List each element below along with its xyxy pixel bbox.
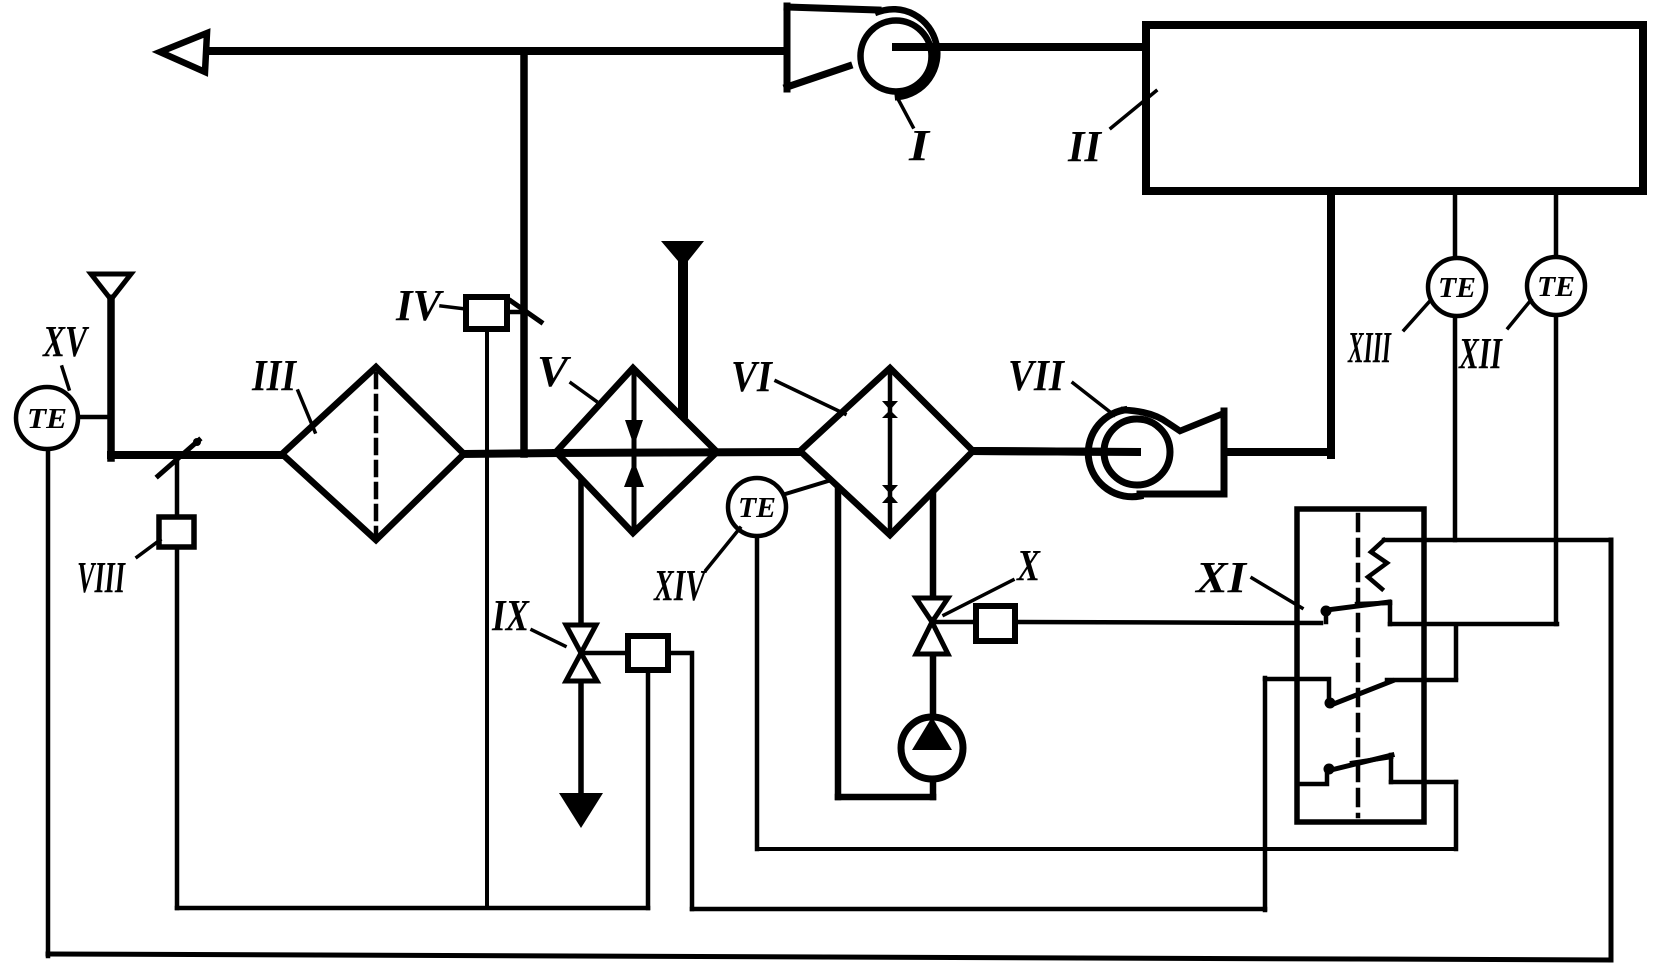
relay contact 3 pivot dot [1324, 764, 1335, 775]
wire: TE XII down to rail P2 [1554, 314, 1559, 624]
leader line label I [898, 99, 913, 127]
leader line label XI [1252, 578, 1302, 608]
svg-text:VI: VI [731, 352, 774, 401]
leader line label IV [441, 306, 466, 309]
TE XII sensor circle [1527, 257, 1585, 315]
valve X actuator square [976, 606, 1015, 641]
wire: valve IX stem to actuator square [584, 651, 628, 656]
wire: fan VII outlet to riser [1224, 448, 1331, 456]
svg-text:TE: TE [1537, 271, 1575, 303]
wire: left drain header to valve IX square [177, 906, 648, 911]
svg-text:TE: TE [1438, 272, 1476, 304]
wire: recirculation loop bottom [838, 794, 933, 801]
heat exchanger VI (diamond) [800, 368, 973, 535]
wire: lower header from IX branch to relay block [692, 907, 1265, 912]
svg-text:IV: IV [395, 281, 444, 330]
relay contact 2 fixed terminal rail [1387, 678, 1456, 683]
wire: main duct between III and V [464, 453, 556, 454]
exchanger VI internal line [888, 372, 893, 531]
svg-text:IX: IX [491, 591, 530, 640]
relay contact 3 fixed rail to link [1391, 780, 1456, 785]
hand damper slash on main duct [158, 440, 199, 476]
leader line label XV [62, 367, 69, 389]
leader line label XII [1508, 300, 1531, 328]
fan I housing outer scroll arc [878, 9, 937, 97]
leader line label II [1111, 91, 1156, 128]
fan VII impeller circle [1104, 419, 1170, 485]
valve IV slash on bypass line [511, 301, 541, 322]
relay contact 1 fixed terminal step [1388, 602, 1393, 624]
relay contact 3 blade [1331, 755, 1392, 770]
fan VII shaft line [976, 451, 1137, 452]
wire: top exhaust line from arrow to fan I [200, 47, 792, 55]
wire: fan I outlet to unit II [893, 43, 1146, 51]
wire: IX square right branch [668, 653, 692, 909]
valve IX actuator square [628, 636, 668, 670]
wire: relay feed rail P1 [1384, 538, 1611, 543]
svg-text:X: X [1015, 541, 1041, 590]
wire: riser from duct up to unit II bottom [1327, 190, 1335, 455]
wire: condensate line from exchanger V to valve IX [578, 482, 584, 627]
heat exchanger V (diamond) [556, 368, 717, 533]
wire: valve X control line to relay contact 1 [1015, 622, 1321, 623]
relay contact 1 fixed terminal ledge [1357, 603, 1390, 604]
relay contact 1 stub [1324, 613, 1329, 622]
wire: valve X to pump [930, 653, 937, 719]
wire: vertical bypass line from top line down to main duct [520, 51, 528, 454]
svg-text:II: II [1067, 122, 1103, 171]
fan VII housing fill [1124, 410, 1224, 494]
wire: relay block B top edge to contact 2 [1265, 679, 1329, 698]
svg-text:XI: XI [1194, 553, 1248, 602]
fan VII outlet scoop [1124, 410, 1222, 431]
exchanger VI upper bowtie mark [882, 401, 898, 418]
wire: TE XV to intake stem [78, 415, 111, 420]
relay contact 3 fixed terminal step [1389, 755, 1394, 782]
svg-text:TE: TE [27, 403, 67, 435]
pump (circle with filled up triangle) [901, 717, 963, 779]
svg-text:XIII: XIII [1347, 323, 1392, 372]
leader line label IX [532, 630, 565, 646]
relay box XI outline [1297, 509, 1424, 822]
fan I shaft line [896, 43, 1146, 51]
wire: right rail up to relay feed [1609, 540, 1614, 960]
arrowhead: exhaust outlet arrow (hollow, pointing left) [160, 33, 207, 72]
wire: TE XIV connection to exchanger VI [782, 481, 828, 495]
wire: bottom rail [48, 954, 1611, 960]
relay XI armature dashed line [1356, 515, 1361, 816]
wire: relay block B left edge [1263, 678, 1268, 910]
relay contact 1 pivot dot [1321, 606, 1332, 617]
damper VIII square [159, 517, 194, 547]
leader line label X [944, 580, 1013, 615]
valve IV actuator square [466, 297, 507, 329]
exchanger V arrow up onto duct [624, 461, 644, 487]
wire: TE XII stem from unit II [1554, 190, 1559, 258]
arrowhead: drain outlet (filled, pointing down) [559, 793, 603, 828]
svg-text:XIV: XIV [653, 561, 708, 610]
leader line label XIV [706, 528, 740, 570]
relay contact 2 pivot dot [1325, 698, 1336, 709]
relay contact 2 blade [1331, 681, 1392, 705]
wire: TE XIII down to rail P1 [1453, 315, 1458, 540]
fan VII outlet bottom [1140, 491, 1224, 498]
wire: damper VIII branch down from main duct [175, 455, 180, 908]
svg-text:TE: TE [738, 492, 776, 524]
fan VII outlet right edge [1221, 411, 1228, 494]
exchanger V arrow down onto duct [625, 420, 643, 446]
wire: valve X stem to actuator square [936, 620, 976, 625]
svg-text:V: V [537, 347, 572, 396]
wire: main duct through V to VI [556, 452, 800, 453]
svg-text:XV: XV [42, 317, 90, 366]
unit II box [1146, 25, 1643, 191]
wire: TE XIII stem from unit II [1453, 190, 1458, 259]
svg-text:VII: VII [1008, 351, 1066, 400]
exchanger VI lower bowtie mark [882, 485, 898, 503]
fan VII outer scroll arc [1088, 410, 1140, 497]
TE XV sensor circle [16, 387, 78, 449]
relay contact 1 blade [1327, 602, 1389, 610]
funnel: atmospheric intake (hollow) [91, 274, 131, 297]
wire: pump outlet to loop bottom [930, 777, 937, 797]
leader line label VI [776, 381, 845, 414]
wire: valve IV sensing line down [485, 329, 489, 908]
wire: main duct from VI to fan VII [973, 451, 1137, 452]
leader line label VII [1073, 383, 1114, 415]
valve IX (bowtie) [566, 625, 596, 653]
wire: IX square bottom stem [646, 670, 651, 908]
wire: TE XIV drop line [755, 536, 760, 849]
relay contact 3 fixed terminal ledge [1352, 757, 1391, 763]
leader line label V [571, 383, 596, 401]
heat exchanger III (diamond) [282, 367, 464, 540]
leader line label XIII [1404, 302, 1429, 330]
svg-text:I: I [908, 121, 931, 170]
wire: link contact 3 rail down to TE XIV header [1454, 782, 1459, 849]
leader line label III [298, 391, 315, 432]
valve IV actuator stub [507, 310, 519, 315]
svg-text:III: III [251, 351, 297, 400]
wire: rail P2 from contact 1 to TE XII line [1390, 622, 1557, 627]
wire: TE XIV header to relay block (rail under B) [757, 847, 1456, 851]
wire: intake funnel stem [107, 296, 115, 458]
TE XIII sensor circle [1428, 258, 1486, 316]
wire: valve IX to drain arrow [578, 679, 584, 796]
valve X (bowtie) [916, 598, 948, 622]
TE XIV sensor circle [728, 478, 786, 536]
wire: recirculation loop left leg from exchanger VI [835, 484, 842, 797]
exchanger V internal flow line [632, 371, 637, 530]
wire: TE XV drop to bottom rail [46, 448, 51, 956]
wire: main duct from intake funnel to exchanger III [111, 451, 282, 459]
wire: exchanger VI to valve X [930, 493, 937, 600]
relay XI break squiggle [1368, 540, 1387, 589]
exchanger III dashed media line [374, 374, 379, 534]
spray funnel over exchanger V (filled) [661, 241, 704, 418]
svg-text:VIII: VIII [77, 553, 126, 602]
wire: link rail P2 down to contact 2 rail [1454, 625, 1459, 678]
svg-text:XII: XII [1458, 329, 1504, 378]
fan I impeller circle [861, 21, 932, 92]
leader line label VIII [137, 540, 160, 557]
relay contact 3 terminal from box wall [1297, 773, 1327, 784]
fan I housing [787, 7, 941, 96]
